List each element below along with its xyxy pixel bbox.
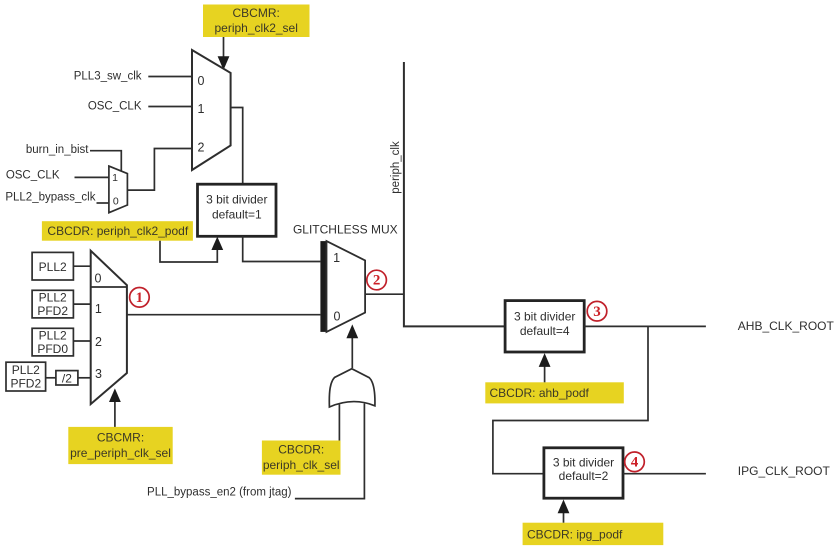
- svg-text:OSC_CLK: OSC_CLK: [88, 101, 142, 113]
- wire pre_periph_clk_sel select arrow into mux U1: [109, 388, 121, 427]
- divider /2: [56, 371, 78, 386]
- box PLL2 PFD2: [32, 290, 73, 318]
- divider D4 3 bit divider default=2: [544, 448, 623, 498]
- svg-text:PLL2_bypass_clk: PLL2_bypass_clk: [5, 192, 95, 204]
- badge 4: [625, 452, 645, 472]
- svg-text:CBCDR: ahb_podf: CBCDR: ahb_podf: [490, 386, 590, 400]
- wire divider D4 output to IPG_CLK_ROOT: [623, 473, 706, 475]
- svg-text:2: 2: [373, 273, 381, 289]
- wire /2 to mux input 3: [78, 377, 91, 379]
- label CBCDR: ahb_podf: [485, 382, 624, 403]
- label CBCDR: periph_clk_sel: [262, 441, 341, 475]
- svg-text:CBCDR: ipg_podf: CBCDR: ipg_podf: [527, 527, 623, 541]
- svg-text:CBCDR:: CBCDR:: [278, 443, 324, 457]
- svg-text:PLL2: PLL2: [39, 260, 67, 274]
- box PLL2 PFD2 (second): [6, 362, 46, 391]
- svg-text:AHB_CLK_ROOT: AHB_CLK_ROOT: [738, 319, 834, 333]
- svg-text:IPG_CLK_ROOT: IPG_CLK_ROOT: [738, 464, 831, 478]
- svg-text:3: 3: [95, 367, 102, 381]
- svg-text:PFD2: PFD2: [37, 304, 68, 318]
- divider D1 3 bit divider default=1: [198, 184, 277, 236]
- wire divider D1 output to glitchless mux input 1: [243, 236, 321, 261]
- label CBCMR: pre_periph_clk_sel: [68, 427, 172, 464]
- wire glitchless mux output to periph_clk line: [365, 293, 404, 295]
- wire ahb_podf select arrow into divider D3: [539, 353, 551, 382]
- svg-text:PLL_bypass_en2 (from jtag): PLL_bypass_en2 (from jtag): [147, 487, 292, 499]
- wire periph_clk2_podf select to divider D1: [160, 237, 223, 262]
- svg-text:1: 1: [333, 251, 340, 265]
- wire PLL2 PFD2 to mux input 1: [73, 303, 90, 305]
- svg-text:PLL2: PLL2: [12, 363, 40, 377]
- svg-text:3: 3: [593, 304, 601, 320]
- svg-text:0: 0: [95, 272, 102, 286]
- svg-text:default=2: default=2: [559, 469, 609, 483]
- wire PLL2 to mux input 0: [73, 265, 90, 267]
- svg-text:PLL3_sw_clk: PLL3_sw_clk: [74, 71, 142, 83]
- svg-text:CBCDR: periph_clk2_podf: CBCDR: periph_clk2_podf: [47, 224, 188, 238]
- svg-text:3 bit divider: 3 bit divider: [553, 456, 614, 470]
- wire OSC_CLK to mux input 1: [148, 106, 192, 108]
- wire PLL2 PFD2 to /2: [46, 377, 56, 379]
- wire ipg_podf select arrow into divider D4: [558, 500, 570, 523]
- or-gate G1: [329, 369, 375, 407]
- mux U1 pre_periph mux: [91, 251, 127, 404]
- svg-text:/2: /2: [62, 371, 72, 385]
- badge 2: [367, 270, 387, 290]
- svg-text:3 bit divider: 3 bit divider: [206, 193, 267, 207]
- badge 1: [130, 288, 150, 308]
- mux U3 burn_in small mux: [109, 166, 128, 213]
- wire divider D3 output to AHB_CLK_ROOT: [584, 325, 706, 327]
- svg-text:PFD2: PFD2: [10, 377, 41, 391]
- wire PLL2 PFD0 to mux input 2: [73, 340, 90, 342]
- wire branch from AHB line to divider D4: [493, 326, 648, 473]
- wire PLL_bypass_en2 to or-gate right input: [295, 404, 365, 499]
- badge 3: [587, 301, 607, 321]
- wire small mux output to top mux input 2: [127, 149, 192, 191]
- svg-text:2: 2: [198, 141, 205, 155]
- wire top mux output to divider D1: [231, 108, 243, 185]
- svg-text:burn_in_bist: burn_in_bist: [26, 144, 89, 156]
- wire periph_clk_sel to or-gate left input: [338, 405, 340, 441]
- wire mux U1 output to glitchless mux input 0: [127, 314, 321, 316]
- box PLL2 PFD0: [32, 328, 73, 356]
- svg-text:0: 0: [198, 74, 205, 88]
- label CBCMR: periph_clk2_sel: [203, 5, 310, 38]
- divider D3 3 bit divider default=4: [505, 301, 584, 352]
- wire or-gate output arrow into glitchless mux select: [346, 324, 358, 368]
- svg-text:PLL2: PLL2: [39, 291, 67, 305]
- svg-text:PLL2: PLL2: [39, 329, 67, 343]
- label CBCDR: ipg_podf: [523, 523, 664, 545]
- svg-text:0: 0: [334, 309, 341, 323]
- svg-text:CBCMR:: CBCMR:: [233, 6, 280, 20]
- wire OSC_CLK to small mux input 1: [75, 176, 109, 178]
- svg-text:1: 1: [136, 290, 144, 306]
- svg-text:2: 2: [95, 335, 102, 349]
- wire periph_clk2_sel select into top mux: [218, 37, 230, 70]
- label CBCDR: periph_clk2_podf: [42, 221, 193, 241]
- wire burn_in_bist select into small mux: [90, 151, 121, 171]
- svg-text:CBCMR:: CBCMR:: [97, 431, 144, 445]
- wire PLL3_sw_clk to mux input 0: [148, 76, 192, 78]
- svg-text:periph_clk_sel: periph_clk_sel: [263, 458, 340, 472]
- svg-text:pre_periph_clk_sel: pre_periph_clk_sel: [70, 446, 171, 460]
- svg-text:periph_clk2_sel: periph_clk2_sel: [215, 21, 298, 35]
- wire PLL2_bypass_clk to small mux input 0: [97, 202, 109, 204]
- svg-text:GLITCHLESS MUX: GLITCHLESS MUX: [293, 223, 398, 237]
- svg-text:OSC_CLK: OSC_CLK: [6, 170, 60, 182]
- svg-text:1: 1: [112, 172, 118, 184]
- node periph_clk vertical net: [390, 62, 505, 326]
- svg-text:default=1: default=1: [212, 207, 262, 221]
- svg-text:1: 1: [95, 302, 102, 316]
- svg-text:1: 1: [198, 102, 205, 116]
- mux U4 glitchless mux: [320, 241, 365, 332]
- svg-text:periph_clk: periph_clk: [390, 141, 402, 194]
- svg-text:3 bit divider: 3 bit divider: [514, 309, 575, 323]
- svg-text:4: 4: [631, 454, 639, 470]
- svg-text:default=4: default=4: [520, 324, 570, 338]
- svg-text:0: 0: [113, 195, 119, 207]
- box PLL2: [32, 252, 73, 280]
- mux U2 periph_clk2 (top mux): [192, 50, 231, 170]
- svg-text:PFD0: PFD0: [37, 342, 68, 356]
